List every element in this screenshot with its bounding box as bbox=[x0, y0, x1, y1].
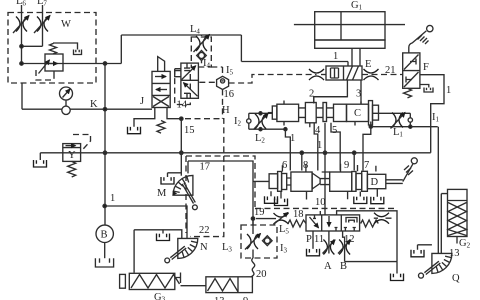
svg-text:14: 14 bbox=[177, 100, 188, 111]
svg-text:Q: Q bbox=[452, 273, 460, 284]
svg-text:D: D bbox=[371, 177, 379, 188]
svg-text:15: 15 bbox=[184, 125, 195, 136]
svg-text:J: J bbox=[140, 96, 144, 107]
svg-text:8: 8 bbox=[303, 160, 308, 171]
svg-text:B: B bbox=[101, 230, 108, 241]
svg-text:W: W bbox=[61, 19, 71, 30]
svg-text:P: P bbox=[306, 234, 312, 245]
svg-text:F: F bbox=[423, 62, 429, 73]
svg-text:22: 22 bbox=[199, 225, 210, 236]
svg-text:Y: Y bbox=[68, 150, 76, 161]
svg-text:1: 1 bbox=[333, 51, 338, 62]
svg-text:9: 9 bbox=[243, 296, 248, 300]
svg-text:K: K bbox=[90, 99, 98, 110]
svg-text:L7: L7 bbox=[37, 0, 47, 8]
svg-text:10: 10 bbox=[315, 197, 326, 208]
svg-text:C: C bbox=[354, 108, 361, 119]
svg-text:1: 1 bbox=[446, 85, 451, 96]
svg-text:B: B bbox=[340, 261, 347, 272]
svg-text:M: M bbox=[157, 188, 167, 199]
svg-text:20: 20 bbox=[256, 269, 267, 280]
svg-text:16: 16 bbox=[224, 89, 235, 100]
svg-text:21: 21 bbox=[385, 65, 396, 76]
svg-text:13: 13 bbox=[214, 296, 225, 300]
svg-text:N: N bbox=[200, 242, 208, 253]
svg-text:5: 5 bbox=[332, 125, 337, 136]
svg-text:2: 2 bbox=[309, 89, 314, 100]
svg-text:7: 7 bbox=[364, 160, 369, 171]
svg-text:A: A bbox=[324, 261, 332, 272]
svg-text:4: 4 bbox=[315, 125, 321, 136]
svg-text:11: 11 bbox=[314, 234, 324, 245]
svg-text:12: 12 bbox=[344, 234, 355, 245]
svg-text:H: H bbox=[222, 105, 230, 116]
svg-text:13: 13 bbox=[449, 248, 460, 259]
svg-text:1: 1 bbox=[110, 193, 115, 204]
svg-text:6: 6 bbox=[282, 160, 287, 171]
svg-text:17: 17 bbox=[200, 162, 211, 173]
svg-text:19: 19 bbox=[254, 207, 265, 218]
svg-text:9: 9 bbox=[344, 160, 349, 171]
svg-text:L6: L6 bbox=[16, 0, 26, 8]
svg-text:E: E bbox=[365, 59, 371, 70]
svg-text:3: 3 bbox=[356, 89, 361, 100]
svg-text:1: 1 bbox=[290, 133, 295, 144]
svg-text:18: 18 bbox=[293, 209, 304, 220]
svg-text:1: 1 bbox=[317, 140, 322, 151]
